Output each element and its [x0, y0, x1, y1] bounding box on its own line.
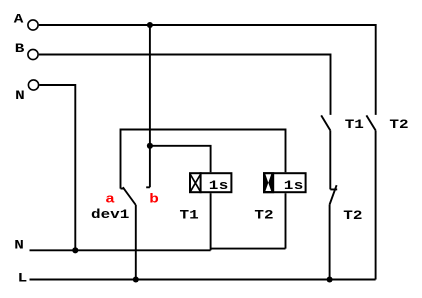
svg-text:a: a [105, 193, 115, 207]
svg-text:1s: 1s [209, 179, 229, 193]
svg-text:1s: 1s [284, 179, 304, 193]
svg-text:N: N [15, 89, 25, 103]
svg-text:dev1: dev1 [91, 209, 129, 223]
svg-text:T2: T2 [343, 209, 362, 223]
svg-text:L: L [18, 272, 28, 286]
svg-text:N: N [14, 239, 24, 253]
svg-text:B: B [15, 42, 25, 56]
svg-text:T2: T2 [389, 118, 408, 132]
svg-text:T1: T1 [180, 209, 199, 223]
svg-text:A: A [14, 13, 24, 27]
svg-text:T2: T2 [254, 209, 273, 223]
svg-text:b: b [149, 193, 159, 207]
svg-text:T1: T1 [345, 118, 364, 132]
